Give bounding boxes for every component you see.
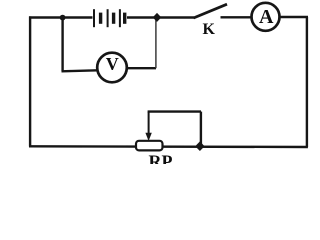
- wire rheostat wiper stem: [148, 112, 150, 137]
- wire voltmeter branch left horizontal: [62, 70, 98, 71]
- wire voltmeter branch left vertical: [61, 18, 63, 72]
- switch K blade: [194, 4, 228, 18]
- svg-text:K: K: [203, 21, 216, 38]
- wire wiper bracket right vertical: [200, 112, 202, 146]
- wire ammeter to top-right corner: [280, 16, 309, 18]
- rheostat wiper arrowhead: [145, 133, 151, 141]
- battery GB (three cells): [94, 9, 125, 27]
- svg-text:A: A: [259, 6, 274, 28]
- ammeter U-A circle: [252, 3, 280, 31]
- wire right vertical: [306, 17, 308, 147]
- wire battery to node B: [127, 16, 157, 18]
- node A junction dot: [60, 15, 66, 21]
- wire left vertical: [29, 16, 31, 146]
- wire voltmeter branch right vertical: [155, 18, 157, 69]
- svg-text:V: V: [106, 54, 119, 74]
- wire node B to switch pivot: [157, 16, 194, 18]
- wire voltmeter branch right horizontal: [127, 67, 157, 69]
- node C junction diamond: [195, 141, 204, 151]
- wire top-left horizontal: [29, 16, 93, 18]
- rheostat RP body: [136, 141, 163, 151]
- node B junction dot: [153, 13, 162, 22]
- voltmeter U-V circle: [97, 53, 127, 83]
- wire bottom: [29, 145, 308, 148]
- wire switch contact to ammeter: [221, 16, 252, 18]
- svg-text:RP: RP: [149, 152, 173, 165]
- wire wiper bracket horizontal: [148, 110, 201, 112]
